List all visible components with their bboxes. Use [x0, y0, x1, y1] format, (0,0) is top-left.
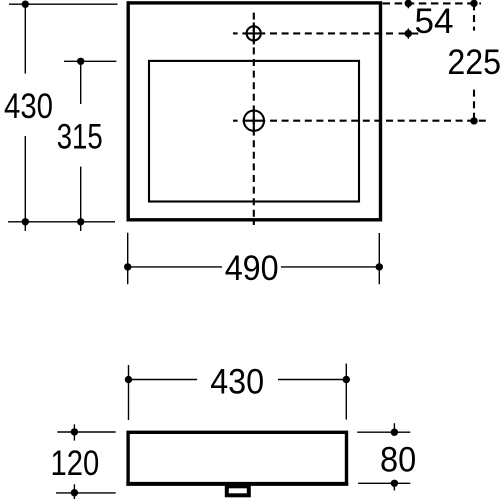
- dim 54: dimension line lower stub: [407, 28, 409, 38]
- dim 120: dimension line lower segment: [73, 484, 75, 499]
- dim 430 bottom: left end dot: [125, 376, 132, 383]
- dim 120: dimension line upper segment: [73, 424, 75, 440]
- dim 225: dashed dimension line lower segment: [473, 90, 475, 121]
- dim 120: bottom end dot: [71, 489, 78, 496]
- vertical centerline (dashed): [253, 13, 255, 225]
- faucet hole centerline: solid end segment through dim 54 dot: [399, 32, 419, 34]
- dim 54: top end dot: [405, 0, 412, 7]
- dim 80: dimension line upper stub: [393, 423, 395, 432]
- dim 430 bottom: right extension line: [345, 364, 347, 420]
- dim 490: left extension line: [127, 233, 129, 285]
- faucet hole circle: [247, 26, 261, 40]
- dim 430 left: top extension line: [9, 3, 118, 5]
- dim 430/315 left: shared bottom extension line: [8, 221, 115, 223]
- elevation bottom edge (thicker): [126, 482, 348, 486]
- dim 430 bottom: dimension line right segment: [278, 379, 346, 381]
- washbasin inner bowl rectangle: [149, 61, 359, 202]
- svg-text:225: 225: [447, 43, 500, 82]
- svg-text:120: 120: [51, 444, 100, 483]
- dim 430 bottom: right end dot: [343, 376, 350, 383]
- svg-text:490: 490: [225, 249, 279, 288]
- dim 315: bottom end dot: [77, 218, 84, 225]
- svg-text:80: 80: [380, 440, 416, 479]
- dim 225: bottom end dot: [470, 117, 477, 124]
- washbasin outer rim rectangle: [128, 3, 380, 220]
- dim 54: bottom end dot: [405, 30, 412, 37]
- svg-text:54: 54: [415, 2, 454, 41]
- dim 430 left: top end dot: [22, 0, 29, 7]
- drain outlet stub: [227, 486, 249, 495]
- drain hole crosshair horizontal: [243, 120, 266, 122]
- drain hole centerline: left short dash: [233, 120, 238, 122]
- faucet hole centerline: left short dash: [233, 32, 238, 34]
- dim 490: right extension line: [378, 233, 380, 284]
- dim 225: dashed dimension line upper segment: [473, 3, 475, 30]
- dim 315: top end dot: [77, 58, 84, 65]
- dim 54: dimension line upper stub: [407, 3, 409, 8]
- drain hole circle: [244, 111, 264, 131]
- elevation body rectangle: [128, 432, 346, 483]
- faucet hole crosshair horizontal: [242, 32, 265, 34]
- dim 490: dimension line right segment: [281, 266, 379, 268]
- dim 80: bottom end dot: [391, 480, 398, 487]
- dim 120: top end dot: [71, 428, 78, 435]
- dim 80: top extension line: [357, 431, 410, 433]
- drain hole centerline: dashed run to the right: [270, 120, 489, 122]
- dim 430 left: bottom end dot: [22, 218, 29, 225]
- dim 315: dimension line lower segment: [80, 167, 82, 231]
- dim 430 left: dimension line lower segment: [24, 136, 26, 231]
- svg-text:315: 315: [57, 118, 103, 157]
- dim 120: bottom extension line: [56, 492, 116, 494]
- dim 315: top extension line: [64, 60, 116, 62]
- dim 225: top end dot: [470, 0, 477, 7]
- faucet hole crosshair vertical: [253, 22, 255, 44]
- dim 315: dimension line upper segment: [80, 61, 82, 104]
- dim 490: right end dot: [376, 263, 383, 270]
- dim 80: top end dot: [391, 429, 398, 436]
- dim 430 left: dimension line upper segment: [24, 4, 26, 73]
- drain hole crosshair vertical: [253, 109, 255, 132]
- dim 120: top extension line: [57, 431, 115, 433]
- svg-text:430: 430: [210, 362, 264, 401]
- dim 430 bottom: left extension line: [128, 365, 130, 420]
- dim 430 bottom: dimension line left segment: [129, 379, 198, 381]
- svg-text:430: 430: [4, 87, 53, 126]
- dashed extension line from top edge to the right: [383, 2, 482, 4]
- dim 490: left end dot: [124, 263, 131, 270]
- dim 490: dimension line left segment: [128, 266, 222, 268]
- faucet hole centerline: dashed run to the right: [270, 32, 395, 34]
- dim 80: dimension line lower stub: [393, 483, 395, 490]
- dim 80: bottom extension line: [358, 482, 410, 484]
